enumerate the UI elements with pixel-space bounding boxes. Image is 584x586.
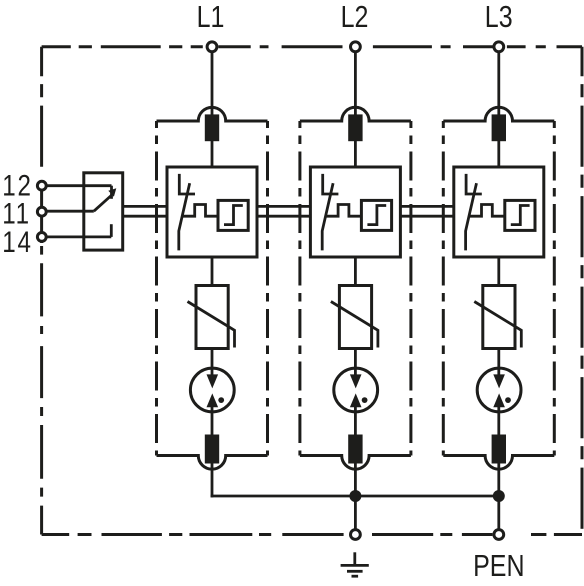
ground symbol bar 1 (341, 564, 369, 567)
PEN terminal circle (494, 530, 504, 540)
enclosure boundary left edge upper part (40, 47, 43, 175)
spark gap F2 (334, 368, 378, 412)
spark gap lower electrode arrow L1 (207, 393, 219, 407)
wire terminal 14 to changeover contact (42, 235, 112, 238)
disconnector switch contact L1 (179, 174, 195, 194)
varistor RV2 (339, 286, 371, 349)
enclosure boundary bottom edge (42, 533, 582, 536)
wire bus to earth terminal (354, 496, 357, 530)
enclosure boundary left edge through signalling terminals (solid) (40, 180, 43, 243)
enclosure boundary (dash-dot) top edge (42, 45, 582, 48)
terminal L3 (494, 42, 504, 52)
wire L1 terminal to thermal disconnector input (211, 52, 214, 116)
wire bottom contact to PE bus L2 (354, 463, 357, 497)
spark gap trigger dot L1 (218, 397, 224, 403)
spark gap F1 (190, 368, 234, 412)
mechanical linkage lower wire: L2 to L3 disconnector (399, 215, 454, 218)
spark gap lower electrode arrow L2 (350, 393, 362, 407)
spark gap upper electrode arrow L3 (493, 374, 505, 388)
fixed contact stub 12 (110, 186, 113, 199)
junction node at L3/PEN drop (493, 490, 505, 502)
step function symbol L1 (224, 206, 243, 225)
thermal element stepped link L2 (326, 205, 362, 217)
earth terminal circle (351, 530, 361, 540)
wire spark gap lower electrode to bottom contact L1 (211, 402, 214, 435)
mechanical linkage upper wire: contact box to L1 disconnector (123, 205, 168, 208)
svg-text:PEN: PEN (473, 548, 524, 582)
plug-in module contact (top) channel L3 (492, 114, 506, 141)
wire spark gap lower electrode to bottom contact L2 (354, 402, 357, 435)
terminal 14 (37, 233, 46, 242)
ground symbol bar 2 (347, 570, 363, 573)
varistor diagonal stroke RV3 (474, 302, 521, 348)
changeover switch blade arrowhead (108, 188, 116, 197)
spark gap trigger dot L3 (505, 397, 511, 403)
spark gap F3 (477, 368, 521, 412)
disconnector switch blade L1 (179, 183, 190, 250)
PE bus wire (211, 495, 499, 498)
switching element box (step response) L1 (218, 200, 248, 230)
wire spark gap lower electrode to bottom contact L3 (497, 402, 500, 435)
wire L3 terminal to thermal disconnector input (497, 52, 500, 116)
switching element box (step response) L3 (505, 200, 535, 230)
protection module outline (dashed) channel L1 (157, 107, 268, 469)
svg-text:L3: L3 (485, 0, 513, 34)
terminal L2 (351, 42, 361, 52)
terminal 12 (37, 181, 46, 190)
svg-text:L1: L1 (197, 0, 225, 34)
plug-in module contact (bottom) channel L1 (205, 435, 219, 464)
varistor diagonal stroke RV1 (188, 302, 235, 348)
disconnector switch contact L2 (323, 174, 339, 194)
wire bottom contact to PE bus L3 (497, 463, 500, 497)
thermal disconnector box U1 (167, 167, 257, 257)
thermal disconnector box U2 (310, 167, 400, 257)
wire varistor to spark gap upper electrode L3 (497, 349, 500, 381)
enclosure boundary left edge lower part (40, 246, 43, 535)
wire bottom contact to PE bus L1 (211, 463, 214, 497)
plug-in module contact (top) channel L1 (205, 114, 219, 141)
protection module outline (dashed) channel L2 (300, 107, 411, 469)
thermal element stepped link L1 (182, 205, 218, 217)
wire disconnector to varistor L1 (211, 257, 214, 286)
remote signalling contact box K1 (84, 173, 123, 250)
mechanical linkage lower wire: L1 to L2 disconnector (256, 215, 311, 218)
enclosure boundary right edge (581, 47, 584, 535)
wire terminal 11 (common) (42, 210, 94, 213)
spark gap upper electrode arrow L1 (207, 374, 219, 388)
mechanical linkage upper wire: L1 to L2 disconnector (256, 205, 311, 208)
plug-in module contact (top) channel L2 (348, 114, 362, 141)
mechanical linkage lower wire: contact box to L1 disconnector (123, 215, 168, 218)
varistor RV1 (196, 286, 228, 349)
wire contact to disconnector box L1 (211, 141, 214, 168)
wire bus to PEN terminal (497, 496, 500, 530)
changeover switch blade (94, 195, 112, 211)
disconnector switch contact L3 (466, 174, 482, 194)
wire varistor to spark gap upper electrode L1 (211, 349, 214, 381)
varistor RV3 (483, 286, 515, 349)
terminal L1 (207, 42, 217, 52)
mechanical linkage upper wire: L2 to L3 disconnector (399, 205, 454, 208)
junction node at L2 drop (349, 490, 361, 502)
wire terminal 12 to changeover contact (42, 184, 112, 187)
switching element box (step response) L2 (361, 200, 391, 230)
terminal 11 (37, 207, 46, 216)
wire varistor to spark gap upper electrode L2 (354, 349, 357, 381)
plug-in module contact (bottom) channel L3 (492, 435, 506, 464)
wire disconnector to varistor L3 (497, 257, 500, 286)
wire contact to disconnector box L2 (354, 141, 357, 168)
spark gap trigger dot L2 (362, 397, 368, 403)
svg-text:L2: L2 (341, 0, 369, 34)
wire L2 terminal to thermal disconnector input (354, 52, 357, 116)
thermal disconnector box U3 (454, 167, 544, 257)
ground symbol stem (353, 552, 356, 565)
varistor diagonal stroke RV2 (331, 302, 378, 348)
disconnector switch blade L2 (322, 183, 333, 250)
step function symbol L2 (367, 206, 386, 225)
fixed contact stub 14 (110, 224, 113, 237)
protection module outline (dashed) channel L3 (443, 107, 554, 469)
plug-in module contact (bottom) channel L2 (348, 435, 362, 464)
wire contact to disconnector box L3 (497, 141, 500, 168)
spark gap upper electrode arrow L2 (350, 374, 362, 388)
disconnector switch blade L3 (466, 183, 477, 250)
spark gap lower electrode arrow L3 (493, 393, 505, 407)
svg-text:14: 14 (2, 226, 33, 259)
wire disconnector to varistor L2 (354, 257, 357, 286)
thermal element stepped link L3 (469, 205, 505, 217)
ground symbol bar 3 (352, 575, 359, 578)
step function symbol L3 (511, 206, 530, 225)
